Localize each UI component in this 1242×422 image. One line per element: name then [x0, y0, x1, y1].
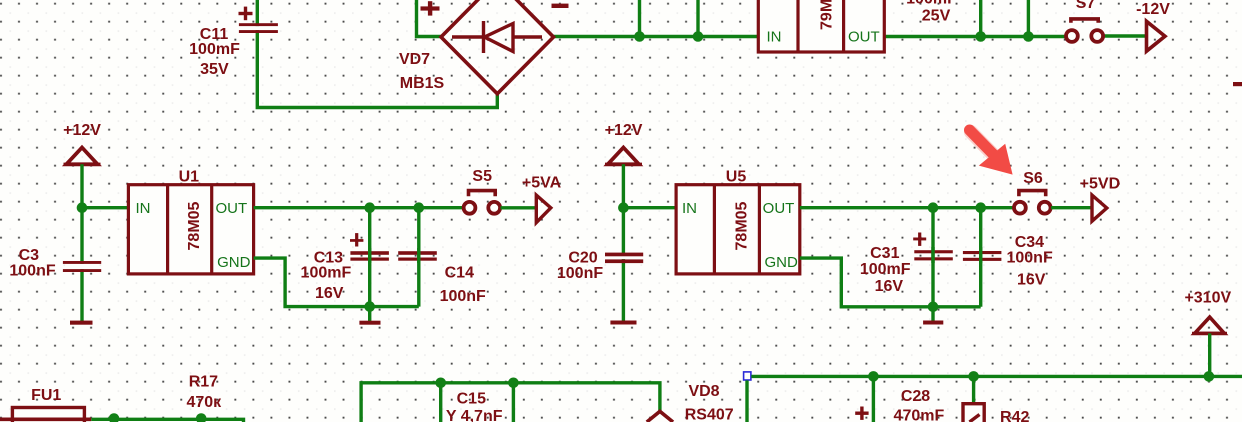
wire junction J10	[928, 202, 939, 213]
wire	[82, 206, 128, 209]
supply arrow +5VD	[1080, 176, 1120, 222]
capacitor C14	[398, 248, 486, 305]
wire	[512, 383, 515, 422]
wire junction J4	[1023, 31, 1034, 42]
svg-text:VD7: VD7	[399, 51, 430, 68]
voltage regulator U5	[676, 168, 800, 274]
switch S6	[1014, 170, 1051, 214]
svg-text:+5VD: +5VD	[1080, 176, 1120, 193]
wire	[800, 258, 981, 307]
supply arrow -12V	[1136, 1, 1170, 51]
svg-text:16V: 16V	[875, 278, 904, 295]
wire junction J5	[77, 202, 88, 213]
wire	[368, 208, 371, 307]
svg-text:R17: R17	[189, 373, 218, 390]
wire junction J15	[435, 378, 446, 389]
capacitor label 100mF 25V (clipped at top)	[906, 0, 957, 25]
resistor R17 label	[186, 373, 222, 411]
wire	[931, 307, 934, 322]
wire junction J19	[1204, 371, 1215, 382]
svg-text:C15: C15	[457, 391, 486, 408]
wire	[884, 35, 1065, 38]
supply arrow +5VA	[522, 175, 562, 223]
wire junction J18	[968, 371, 979, 382]
switch S7	[1066, 0, 1103, 42]
wire	[638, 0, 641, 37]
power symbol +12V (right)	[605, 122, 643, 164]
wire	[368, 307, 371, 322]
wire junction J7	[414, 202, 425, 213]
wire junction J13	[109, 413, 120, 422]
svg-text:100nF: 100nF	[9, 263, 55, 280]
svg-text:OUT: OUT	[848, 28, 880, 45]
minus mark at right edge	[1233, 82, 1242, 86]
switch S5	[464, 168, 501, 214]
wire junction J11	[975, 202, 986, 213]
wire	[1104, 34, 1147, 37]
svg-text:+5VA: +5VA	[522, 175, 562, 192]
svg-text:C3: C3	[19, 247, 40, 264]
wire junction J8	[364, 301, 375, 312]
voltage regulator U? 79M12 box	[758, 0, 884, 52]
wire	[979, 0, 982, 37]
voltage regulator U1	[128, 168, 253, 274]
wire	[800, 206, 1014, 209]
svg-text:MB1S: MB1S	[400, 75, 445, 92]
annotation red arrow	[970, 130, 1013, 175]
svg-text:+12V: +12V	[63, 122, 101, 139]
wire	[439, 383, 442, 422]
wire	[1051, 206, 1092, 209]
wire	[417, 208, 420, 307]
svg-text:GND: GND	[217, 254, 251, 271]
wire	[696, 0, 699, 37]
resistor R42	[963, 404, 1029, 422]
svg-text:470mF: 470mF	[894, 408, 945, 422]
power symbol +310V	[1184, 290, 1231, 334]
wire	[622, 164, 625, 321]
svg-text:C14: C14	[445, 264, 474, 281]
wire	[91, 419, 243, 422]
wire	[254, 258, 419, 307]
ground bar under C20	[610, 321, 636, 325]
wire	[1208, 333, 1211, 376]
wire	[257, 0, 497, 108]
wire	[751, 375, 1242, 378]
svg-text:100mF: 100mF	[189, 41, 240, 58]
svg-text:100mF: 100mF	[906, 0, 957, 8]
wire junction J14	[196, 413, 207, 422]
svg-text:S6: S6	[1023, 170, 1043, 187]
svg-text:100nF: 100nF	[1006, 250, 1052, 267]
bridge rectifier VD7	[399, 0, 569, 94]
wire junction J2	[693, 31, 704, 42]
capacitor C28	[855, 388, 944, 422]
power symbol +12V (left)	[63, 122, 101, 164]
capacitor C11	[189, 7, 278, 78]
svg-text:U1: U1	[179, 168, 200, 185]
capacitor C31	[860, 233, 953, 295]
wire junction J17	[868, 371, 879, 382]
ground bar under C3	[70, 321, 93, 325]
wire junction J12	[928, 302, 939, 313]
svg-text:35V: 35V	[200, 61, 229, 78]
wire	[931, 208, 934, 307]
capacitor C20	[557, 249, 643, 281]
svg-text:GND: GND	[765, 254, 799, 271]
svg-text:RS407: RS407	[685, 406, 734, 422]
svg-text:Y 4,7nF: Y 4,7nF	[446, 408, 503, 422]
bridge rectifier VD8 (top corner)	[647, 383, 734, 422]
svg-text:U5: U5	[726, 168, 747, 185]
svg-text:IN: IN	[136, 200, 151, 217]
svg-text:VD8: VD8	[688, 383, 719, 400]
wire	[745, 380, 748, 422]
wire	[80, 164, 83, 321]
fuse FU1	[0, 387, 91, 422]
svg-text:S5: S5	[472, 168, 492, 185]
svg-text:78M05: 78M05	[733, 201, 750, 250]
svg-text:OUT: OUT	[763, 200, 795, 217]
wire	[972, 376, 975, 404]
wire	[979, 208, 982, 307]
svg-text:C31: C31	[870, 245, 899, 262]
wire junction J6	[364, 202, 375, 213]
svg-text:78M05: 78M05	[186, 201, 203, 250]
wire	[872, 376, 875, 422]
ground bar under C13/C14	[359, 321, 380, 325]
svg-text:100mF: 100mF	[301, 264, 352, 281]
ground bar under C31/C34	[923, 321, 943, 325]
wire	[554, 35, 759, 38]
svg-text:IN: IN	[767, 28, 782, 45]
capacitor C3	[9, 247, 101, 280]
wire junction J3	[975, 31, 986, 42]
selection marker (blue square)	[744, 372, 751, 380]
wire junction J16	[508, 378, 519, 389]
svg-text:79M12: 79M12	[819, 0, 836, 30]
wire	[361, 383, 660, 422]
wire	[1027, 0, 1030, 37]
svg-text:+310V: +310V	[1184, 290, 1231, 307]
svg-text:OUT: OUT	[215, 200, 247, 217]
svg-text:-12V: -12V	[1136, 1, 1170, 18]
svg-text:100nF: 100nF	[440, 288, 486, 305]
svg-text:C28: C28	[901, 388, 930, 405]
wire	[417, 0, 442, 37]
wire	[623, 206, 676, 209]
svg-text:100mF: 100mF	[860, 261, 911, 278]
capacitor C13	[301, 233, 389, 302]
svg-text:+12V: +12V	[605, 122, 643, 139]
svg-text:R42: R42	[1000, 409, 1029, 422]
svg-text:25V: 25V	[922, 8, 951, 25]
wire junction J1	[634, 31, 645, 42]
svg-text:IN: IN	[682, 200, 697, 217]
wire	[254, 206, 463, 209]
svg-text:S7: S7	[1076, 0, 1096, 12]
wire	[501, 206, 537, 209]
svg-text:16V: 16V	[315, 285, 344, 302]
svg-text:470к: 470к	[186, 394, 222, 411]
capacitor C34	[963, 234, 1053, 288]
wire junction J9	[618, 202, 629, 213]
svg-text:FU1: FU1	[31, 387, 61, 404]
svg-text:100nF: 100nF	[557, 265, 603, 282]
svg-text:16V: 16V	[1017, 272, 1046, 289]
capacitor C15 label	[446, 391, 503, 422]
